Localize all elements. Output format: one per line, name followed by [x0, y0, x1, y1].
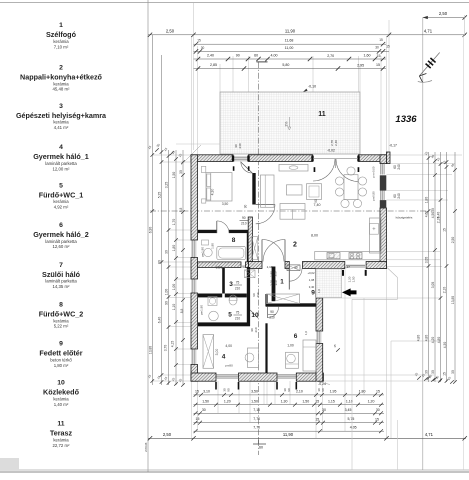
- svg-text:7,10: 7,10: [253, 408, 260, 412]
- svg-text:90: 90: [294, 266, 298, 270]
- svg-text:4,05: 4,05: [350, 426, 357, 430]
- svg-text:2,40: 2,40: [207, 54, 214, 58]
- svg-text:210: 210: [256, 292, 260, 297]
- svg-text:15: 15: [379, 38, 383, 42]
- svg-text:14,35 m²: 14,35 m²: [53, 284, 71, 289]
- svg-text:Gépészeti helyiség+kamra: Gépészeti helyiség+kamra: [16, 111, 107, 120]
- svg-text:laminált parketta: laminált parketta: [45, 239, 77, 244]
- svg-text:1,0: 1,0: [304, 331, 308, 336]
- svg-text:1: 1: [280, 279, 284, 286]
- svg-text:3,00: 3,00: [215, 349, 219, 356]
- svg-text:1,80: 1,80: [211, 243, 215, 249]
- svg-text:kerámia: kerámia: [53, 437, 69, 442]
- svg-text:2: 2: [293, 242, 297, 249]
- svg-text:kerámia: kerámia: [53, 318, 69, 323]
- svg-text:3: 3: [59, 103, 63, 110]
- svg-text:12,00 m²: 12,00 m²: [53, 166, 71, 171]
- svg-text:22,72 m²: 22,72 m²: [53, 443, 71, 448]
- svg-text:2%: 2%: [285, 122, 289, 127]
- svg-text:11,68: 11,68: [285, 39, 294, 43]
- svg-text:90: 90: [321, 388, 325, 392]
- svg-text:4,20: 4,20: [431, 337, 435, 344]
- svg-text:90: 90: [242, 265, 246, 269]
- svg-text:13,80: 13,80: [451, 296, 455, 304]
- svg-text:pm+0,00: pm+0,00: [372, 166, 376, 177]
- svg-text:+0,02: +0,02: [307, 271, 315, 275]
- svg-text:1,00: 1,00: [172, 284, 176, 291]
- svg-text:310: 310: [274, 280, 278, 285]
- svg-text:Gyermek háló_2: Gyermek háló_2: [33, 230, 89, 239]
- svg-text:Nappali+konyha+étkező: Nappali+konyha+étkező: [20, 73, 102, 82]
- svg-text:kerámia: kerámia: [53, 120, 69, 125]
- svg-text:1,15: 1,15: [328, 400, 335, 404]
- svg-text:2,95: 2,95: [357, 63, 364, 67]
- svg-text:1: 1: [59, 22, 63, 29]
- svg-text:45,48 m²: 45,48 m²: [53, 87, 71, 92]
- svg-text:5,80: 5,80: [282, 63, 289, 67]
- svg-text:6,40: 6,40: [437, 212, 441, 219]
- svg-text:2,70: 2,70: [327, 54, 334, 58]
- svg-text:8,8: 8,8: [179, 208, 183, 213]
- svg-text:1,40 m²: 1,40 m²: [54, 402, 69, 407]
- svg-text:90: 90: [236, 54, 240, 58]
- svg-text:1,30: 1,30: [281, 399, 288, 403]
- svg-text:-0,17: -0,17: [389, 144, 397, 148]
- svg-text:9: 9: [311, 290, 315, 297]
- svg-text:1,20: 1,20: [224, 399, 231, 403]
- svg-text:Szélfogó: Szélfogó: [46, 30, 77, 39]
- svg-text:1,50: 1,50: [302, 399, 309, 403]
- svg-text:4,00: 4,00: [225, 344, 232, 348]
- svg-text:6,40: 6,40: [158, 317, 162, 324]
- svg-text:3,25: 3,25: [165, 182, 169, 189]
- svg-text:30: 30: [425, 370, 429, 374]
- svg-text:15: 15: [376, 63, 380, 67]
- svg-text:1,50: 1,50: [202, 399, 209, 403]
- svg-text:4,41 m²: 4,41 m²: [54, 125, 69, 130]
- svg-text:210: 210: [235, 317, 241, 321]
- svg-text:240: 240: [397, 193, 401, 199]
- svg-text:210: 210: [269, 316, 275, 320]
- svg-text:75: 75: [236, 311, 240, 315]
- svg-text:10: 10: [57, 380, 65, 387]
- svg-text:2: 2: [59, 65, 63, 72]
- svg-text:6: 6: [59, 222, 63, 229]
- svg-text:beton térkő: beton térkő: [50, 357, 72, 362]
- svg-text:30: 30: [431, 370, 435, 374]
- svg-text:1,50: 1,50: [352, 276, 356, 282]
- svg-text:30: 30: [451, 370, 455, 374]
- svg-text:240: 240: [397, 164, 401, 170]
- svg-text:13,80: 13,80: [148, 346, 152, 354]
- svg-text:30: 30: [165, 250, 169, 254]
- svg-text:5,75: 5,75: [347, 417, 354, 421]
- svg-text:Gyermek háló_1: Gyermek háló_1: [33, 152, 89, 161]
- svg-text:2,50: 2,50: [439, 11, 448, 16]
- svg-text:30: 30: [375, 46, 379, 50]
- svg-text:2,30: 2,30: [270, 280, 274, 286]
- svg-text:3,05: 3,05: [431, 282, 435, 289]
- svg-text:laminált parketta: laminált parketta: [45, 279, 77, 284]
- svg-text:3,50: 3,50: [251, 389, 258, 393]
- svg-text:8,8: 8,8: [180, 309, 184, 314]
- svg-text:1,00: 1,00: [287, 344, 294, 348]
- svg-text:2,90: 2,90: [216, 265, 223, 269]
- svg-text:1,80: 1,80: [172, 245, 176, 252]
- svg-text:4: 4: [59, 144, 63, 151]
- svg-text:15: 15: [197, 39, 201, 43]
- svg-text:Fürdő+WC_2: Fürdő+WC_2: [39, 310, 84, 319]
- svg-text:15: 15: [195, 389, 199, 393]
- svg-text:7,70: 7,70: [253, 417, 260, 421]
- svg-text:11,90: 11,90: [285, 28, 296, 33]
- svg-text:1,80 m²: 1,80 m²: [54, 363, 69, 368]
- svg-text:5: 5: [228, 312, 232, 319]
- svg-text:laminált parketta: laminált parketta: [45, 161, 77, 166]
- svg-text:pm90: pm90: [225, 364, 233, 368]
- svg-text:1,17: 1,17: [344, 265, 350, 269]
- svg-text:90: 90: [270, 310, 274, 314]
- svg-text:8: 8: [232, 237, 236, 244]
- svg-text:Közlekedő: Közlekedő: [43, 388, 80, 397]
- svg-text:90: 90: [287, 388, 291, 392]
- svg-text:pm0,90: pm0,90: [372, 191, 376, 201]
- svg-text:15: 15: [333, 344, 337, 348]
- svg-text:3,05: 3,05: [425, 257, 429, 264]
- svg-text:kerámia: kerámia: [53, 39, 69, 44]
- svg-text:4,50: 4,50: [431, 212, 435, 219]
- svg-text:3: 3: [229, 281, 233, 288]
- svg-text:Terasz: Terasz: [50, 429, 73, 438]
- svg-text:30: 30: [202, 408, 206, 412]
- svg-text:11: 11: [57, 421, 64, 428]
- svg-text:11,90: 11,90: [283, 432, 294, 437]
- svg-text:-0,02: -0,02: [327, 149, 335, 153]
- svg-text:30: 30: [322, 408, 326, 412]
- svg-text:kerámia: kerámia: [53, 199, 69, 204]
- svg-text:1,00: 1,00: [165, 289, 169, 296]
- svg-text:4: 4: [222, 354, 226, 361]
- svg-text:15: 15: [375, 418, 379, 422]
- svg-text:hőszigetelés: hőszigetelés: [396, 216, 413, 220]
- svg-text:12,60 m²: 12,60 m²: [53, 244, 71, 249]
- svg-text:4,30: 4,30: [211, 189, 215, 196]
- svg-text:6,90: 6,90: [148, 227, 152, 234]
- svg-text:7,10 m²: 7,10 m²: [54, 44, 69, 49]
- svg-text:1,10: 1,10: [267, 265, 273, 269]
- svg-text:1,50: 1,50: [172, 172, 176, 179]
- svg-text:kerámia: kerámia: [53, 81, 69, 86]
- svg-text:-0,10: -0,10: [308, 85, 316, 89]
- svg-text:2,10: 2,10: [296, 389, 303, 393]
- svg-text:2,85: 2,85: [210, 63, 217, 67]
- svg-text:60: 60: [254, 54, 258, 58]
- svg-text:15: 15: [443, 228, 447, 232]
- svg-text:2,40: 2,40: [334, 140, 338, 146]
- svg-text:90: 90: [314, 199, 318, 203]
- svg-text:3,70: 3,70: [163, 345, 167, 352]
- svg-text:2,50: 2,50: [163, 432, 172, 437]
- svg-text:4,80: 4,80: [425, 335, 429, 342]
- svg-text:210: 210: [235, 287, 241, 291]
- svg-text:5,25: 5,25: [158, 192, 162, 199]
- svg-text:90: 90: [227, 388, 231, 392]
- svg-text:5,22 m²: 5,22 m²: [54, 324, 69, 329]
- svg-text:4,92 m²: 4,92 m²: [54, 205, 69, 210]
- svg-text:30: 30: [201, 46, 205, 50]
- svg-text:3,45: 3,45: [345, 408, 352, 412]
- svg-text:15: 15: [315, 418, 319, 422]
- svg-text:1,60: 1,60: [364, 54, 371, 58]
- svg-text:4,30: 4,30: [443, 342, 447, 349]
- svg-text:1,0: 1,0: [317, 289, 321, 294]
- svg-text:7: 7: [59, 262, 63, 269]
- svg-text:11: 11: [318, 111, 326, 118]
- svg-text:4,15: 4,15: [170, 341, 174, 348]
- svg-text:4,80: 4,80: [437, 337, 441, 344]
- svg-text:90: 90: [242, 216, 246, 220]
- svg-text:3,50: 3,50: [222, 202, 229, 206]
- svg-text:240: 240: [238, 143, 242, 148]
- svg-text:3,10: 3,10: [203, 389, 210, 393]
- svg-text:3,40: 3,40: [309, 285, 315, 289]
- svg-text:9: 9: [59, 341, 63, 348]
- svg-text:6: 6: [294, 333, 298, 340]
- svg-text:11,00: 11,00: [285, 46, 294, 50]
- svg-text:15: 15: [443, 372, 447, 376]
- svg-text:90: 90: [158, 260, 162, 264]
- svg-text:5: 5: [59, 182, 63, 189]
- svg-text:Fürdő+WC_1: Fürdő+WC_1: [39, 190, 84, 199]
- svg-text:310: 310: [274, 271, 278, 276]
- svg-text:1,70: 1,70: [172, 219, 176, 226]
- svg-text:1,80: 1,80: [425, 197, 429, 204]
- svg-text:60: 60: [259, 446, 263, 450]
- svg-text:2,50: 2,50: [166, 28, 175, 33]
- svg-text:15: 15: [386, 44, 390, 48]
- svg-text:1,08: 1,08: [309, 278, 315, 282]
- svg-text:2,50: 2,50: [451, 237, 455, 244]
- svg-text:1,50: 1,50: [251, 399, 258, 403]
- svg-text:15: 15: [196, 417, 200, 421]
- svg-text:7,70: 7,70: [253, 426, 260, 430]
- svg-text:75: 75: [236, 281, 240, 285]
- svg-text:30: 30: [376, 408, 380, 412]
- svg-text:2,10: 2,10: [443, 287, 447, 294]
- svg-text:90: 90: [244, 205, 248, 209]
- svg-text:pm1,80: pm1,80: [201, 247, 205, 257]
- svg-text:1,95: 1,95: [330, 389, 337, 393]
- svg-text:8,00: 8,00: [311, 234, 318, 238]
- svg-text:pm1,80: pm1,80: [200, 305, 204, 315]
- svg-text:90: 90: [165, 301, 169, 305]
- svg-text:kerámia: kerámia: [53, 397, 69, 402]
- svg-text:1,20: 1,20: [368, 399, 375, 403]
- svg-text:Fedett előtér: Fedett előtér: [39, 349, 82, 358]
- svg-text:4,00: 4,00: [271, 54, 278, 58]
- svg-text:4,71: 4,71: [425, 432, 434, 437]
- svg-text:210: 210: [241, 222, 247, 226]
- svg-text:210: 210: [254, 327, 258, 332]
- svg-text:1336: 1336: [395, 114, 417, 125]
- svg-text:4,71: 4,71: [424, 28, 433, 33]
- svg-text:20/5448: 20/5448: [144, 442, 148, 452]
- svg-text:30: 30: [179, 170, 183, 174]
- svg-text:10: 10: [251, 312, 259, 319]
- svg-text:4,80: 4,80: [417, 335, 421, 342]
- svg-text:1,10: 1,10: [172, 304, 176, 311]
- svg-text:8: 8: [59, 302, 63, 309]
- svg-text:Szülői háló: Szülői háló: [42, 270, 81, 279]
